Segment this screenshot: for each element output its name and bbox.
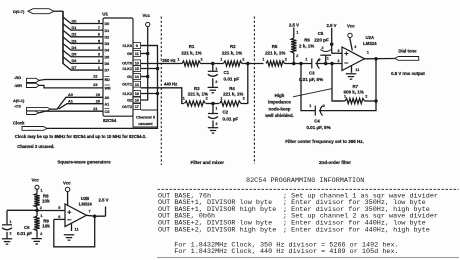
wire R4 up to node (241, 64, 248, 104)
svg-text:20: 20 (96, 99, 100, 103)
resistor R3 (183, 86, 209, 106)
power 2.5V at C5 (327, 23, 337, 28)
IC U1 RD pin name (105, 77, 111, 83)
IC U1 A0 pin name (105, 96, 110, 100)
svg-text:10k: 10k (42, 199, 50, 204)
wire U2B feedback (54, 216, 95, 247)
junction pin2 node (330, 62, 334, 66)
svg-text:1: 1 (216, 107, 218, 111)
svg-text:For 1.8432MHz Clock, 440 Hz di: For 1.8432MHz Clock, 440 Hz divisor = 41… (174, 248, 398, 256)
IC U1 82C54 body (102, 12, 133, 123)
svg-text:0.01 µF: 0.01 µF (17, 231, 32, 236)
svg-text:Channel 3: Channel 3 (136, 114, 156, 119)
IC U1 A1 pin name (105, 102, 110, 106)
wire D2 bus tap (63, 30, 103, 37)
svg-text:unused: unused (138, 121, 153, 126)
wire D0 bus tap (63, 17, 103, 24)
junction node A R6 (292, 62, 296, 66)
wire R1 to R2 (201, 63, 224, 65)
svg-text:WR: WR (105, 87, 111, 91)
resistor R1 (177, 44, 203, 66)
svg-text:R5: R5 (272, 44, 278, 49)
node Clock tag (13, 121, 47, 131)
ground at U2A (346, 74, 356, 79)
svg-text:D2: D2 (72, 33, 77, 37)
resistor R7 (332, 84, 368, 103)
svg-text:A1: A1 (105, 102, 110, 106)
ground under C1 (208, 87, 218, 92)
label pin2 (338, 59, 340, 63)
svg-text:1: 1 (98, 66, 100, 70)
svg-text:OUT0: OUT0 (122, 61, 132, 65)
svg-text:2 k, 1%: 2 k, 1% (299, 43, 314, 48)
wire CLK0 stub (141, 45, 158, 47)
power Vcc at U2A (347, 24, 357, 51)
svg-text:R2: R2 (230, 44, 236, 49)
svg-text:U1: U1 (102, 12, 108, 17)
svg-text:impedance: impedance (268, 100, 291, 105)
svg-text:0.8 V rms output: 0.8 V rms output (391, 71, 425, 76)
wire G0 to Vcc (141, 53, 148, 55)
resistor R2 (220, 44, 245, 66)
wire -CS to pin 21 (39, 107, 103, 113)
label 2nd-order filter (319, 160, 351, 165)
IC U1 data pin names (105, 22, 111, 73)
power Vcc at U2B (63, 181, 71, 206)
svg-text:2: 2 (322, 46, 324, 50)
svg-text:2: 2 (40, 232, 42, 236)
svg-text:13: 13 (135, 83, 139, 87)
svg-text:-RD: -RD (14, 75, 21, 80)
svg-text:D5: D5 (72, 53, 77, 57)
svg-text:2: 2 (10, 232, 12, 236)
svg-text:221 k, 1%: 221 k, 1% (265, 50, 285, 55)
svg-text:16: 16 (135, 99, 139, 103)
svg-text:R6: R6 (304, 38, 310, 43)
svg-text:R3: R3 (194, 86, 200, 91)
svg-text:11: 11 (135, 52, 139, 56)
svg-text:220 pF: 220 pF (314, 38, 329, 43)
svg-text:OUT BASE+2, DIVISOR high byte: OUT BASE+2, DIVISOR high byte (158, 226, 276, 234)
svg-text:8: 8 (98, 19, 100, 23)
svg-text:R1: R1 (189, 44, 195, 49)
node D(0-7) bus tag (13, 9, 63, 14)
svg-text:U2A: U2A (365, 35, 374, 40)
junction clock-CLK1 (156, 67, 160, 71)
svg-text:R4: R4 (229, 86, 235, 91)
capacitor C4 (306, 103, 330, 130)
svg-text:OUT1: OUT1 (122, 83, 132, 87)
svg-text:0.01 µF: 0.01 µF (224, 77, 240, 82)
wire clock line (47, 46, 158, 129)
svg-text:7: 7 (98, 26, 100, 30)
svg-text:C5: C5 (318, 31, 324, 36)
svg-text:CLK2: CLK2 (122, 92, 132, 96)
ground under C2 (208, 128, 218, 133)
wire pin3 input (332, 49, 342, 54)
junction clock-CLK2 (156, 92, 160, 96)
resistor R6 (291, 28, 314, 64)
svg-text:1: 1 (215, 67, 217, 71)
divider dashed 1 (160, 17, 162, 166)
junction Vcc-G0 (146, 52, 150, 56)
svg-text:Vcc: Vcc (347, 24, 355, 29)
svg-text:D0: D0 (105, 22, 110, 26)
svg-text:82C54 PROGRAMMING INFORMATION: 82C54 PROGRAMMING INFORMATION (246, 177, 364, 185)
svg-text:D1: D1 (72, 26, 77, 30)
junction C1 tap (211, 62, 215, 66)
svg-text:Channel 3 unused.: Channel 3 unused. (17, 144, 54, 149)
resistor R8 (34, 187, 50, 210)
svg-text:21: 21 (93, 107, 97, 111)
svg-text:Vcc: Vcc (32, 177, 40, 182)
label 440 Hz (164, 81, 177, 86)
wire D4 bus tap (63, 44, 103, 51)
note filter center frequency (285, 139, 364, 144)
wire pin2 to R7 (332, 64, 343, 102)
junction mixer node (246, 62, 250, 66)
op-amp U2B (65, 196, 92, 227)
junction C2 tap (211, 102, 215, 106)
power Vcc at R8 (32, 177, 40, 189)
svg-text:1: 1 (327, 57, 329, 61)
svg-text:Vcc: Vcc (63, 181, 71, 186)
svg-text:10: 10 (135, 61, 139, 65)
svg-text:Vcc: Vcc (143, 13, 151, 18)
svg-text:D3: D3 (72, 39, 77, 43)
capacitor C2 (208, 104, 238, 128)
svg-text:A1: A1 (68, 99, 73, 103)
svg-text:15: 15 (135, 67, 139, 71)
svg-text:11: 11 (356, 68, 360, 72)
resistor R4 (220, 86, 246, 106)
svg-text:R7: R7 (352, 84, 358, 89)
svg-text:LM324: LM324 (79, 201, 93, 206)
wire D7 bus tap (63, 64, 103, 71)
svg-text:221 k, 1%: 221 k, 1% (223, 92, 243, 97)
svg-text:D6: D6 (72, 59, 77, 63)
note clock speed (15, 134, 146, 139)
svg-text:2: 2 (338, 59, 340, 63)
wire D6 bus tap (63, 57, 103, 64)
svg-text:1: 1 (296, 31, 298, 35)
IC U1 WR pin name (105, 85, 111, 91)
note channel 3 unused (17, 144, 54, 149)
wire output down to C4 (319, 59, 376, 111)
op-amp U2A (342, 35, 377, 71)
svg-text:CLK1: CLK1 (122, 67, 132, 71)
wire C4 to node A (301, 64, 315, 111)
svg-text:2: 2 (296, 54, 298, 58)
svg-text:node-keep: node-keep (269, 106, 291, 111)
wire pin11 ground stub (352, 65, 360, 73)
wire R2 to node (242, 63, 264, 65)
wire D3 bus tap (63, 37, 103, 44)
node -RD tag (14, 75, 39, 82)
wire U2A output (365, 50, 395, 59)
svg-text:3: 3 (338, 49, 340, 53)
svg-text:19: 19 (96, 93, 100, 97)
wire OUT0 to R1 (141, 63, 182, 65)
wire data bus vertical (62, 11, 64, 64)
wire D1 bus tap (63, 24, 103, 31)
svg-text:CLK0: CLK0 (122, 44, 132, 48)
svg-text:High: High (275, 93, 285, 98)
svg-text:350 Hz: 350 Hz (162, 58, 175, 63)
svg-text:G1: G1 (127, 75, 132, 79)
svg-text:0.01 µF, 5%: 0.01 µF, 5% (299, 77, 323, 82)
svg-text:221 k, 1%: 221 k, 1% (222, 51, 242, 56)
svg-text:C6: C6 (24, 225, 30, 230)
node A(0-1) tag (13, 98, 51, 111)
label square-wave generators (57, 159, 111, 164)
IC U1 CS pin name (105, 108, 111, 114)
svg-text:D5: D5 (105, 55, 110, 59)
wire CLK1 stub (141, 68, 158, 70)
wire OUT1 to R3 (141, 88, 184, 104)
svg-text:CS: CS (105, 110, 111, 114)
IC U1 right pin boxes (122, 43, 140, 110)
label filter and mixer (191, 160, 225, 165)
svg-text:D3: D3 (105, 42, 110, 46)
junction R8 R9 node (35, 209, 39, 213)
resistor R5 (262, 44, 288, 66)
svg-text:D6: D6 (105, 62, 110, 66)
svg-text:909 k, 1%: 909 k, 1% (343, 90, 363, 95)
ground under R9 (32, 239, 42, 244)
svg-text:221 k, 1%: 221 k, 1% (181, 51, 201, 56)
junction output node (374, 57, 378, 61)
svg-text:C3: C3 (309, 71, 315, 76)
wire R7 to output (365, 100, 377, 102)
svg-text:2.5 V: 2.5 V (99, 197, 109, 202)
ground under C6 (2, 239, 12, 244)
svg-text:Filter and mixer: Filter and mixer (191, 160, 225, 165)
wire pin6 input (54, 218, 65, 220)
power 2.5V at R6 (289, 23, 299, 28)
wire Vcc rail (141, 27, 148, 100)
label pin5 (58, 205, 61, 210)
node -CS tag (14, 104, 39, 115)
svg-text:5: 5 (98, 39, 100, 43)
capacitor C5 (314, 28, 333, 64)
svg-text:9: 9 (136, 44, 138, 48)
svg-text:2: 2 (98, 59, 100, 63)
wire node to pin5 (37, 210, 65, 212)
svg-text:2: 2 (215, 80, 217, 84)
junction C5 tap (324, 62, 328, 66)
note high impedance (264, 89, 331, 118)
wire R5 to node A (285, 63, 343, 65)
label pin6 (58, 214, 61, 219)
svg-text:17: 17 (135, 105, 139, 109)
svg-text:D7: D7 (72, 66, 77, 70)
wire G1 to Vcc (141, 76, 148, 78)
svg-text:D1: D1 (105, 29, 110, 33)
svg-text:0.01 µF, 5%: 0.01 µF, 5% (306, 125, 330, 130)
junction U2B output (93, 215, 97, 219)
node -WR tag (14, 83, 39, 88)
svg-text:G2: G2 (127, 99, 132, 103)
svg-text:18: 18 (135, 92, 139, 96)
svg-text:A0: A0 (68, 93, 73, 97)
svg-text:2.5 V: 2.5 V (289, 23, 299, 28)
svg-text:LM324: LM324 (363, 41, 377, 46)
svg-text:RD: RD (105, 78, 111, 82)
svg-text:; Enter divisor for 440Hz, hig: ; Enter divisor for 440Hz, high byte (283, 226, 430, 234)
wire pin11 U2B stub (72, 223, 80, 231)
IC U1 channel3 box (133, 110, 158, 127)
svg-text:0.01 µF: 0.01 µF (223, 116, 239, 121)
note table divisor rows (174, 241, 398, 256)
divider dashed 2 (253, 17, 255, 165)
svg-text:D0: D0 (72, 19, 77, 23)
svg-text:C1: C1 (224, 70, 230, 75)
wire A0 (51, 93, 104, 109)
svg-text:C4: C4 (314, 119, 320, 124)
svg-text:Dial tone: Dial tone (398, 48, 417, 53)
svg-text:23: 23 (93, 83, 97, 87)
svg-text:D7: D7 (105, 69, 110, 73)
svg-text:2nd-order filter: 2nd-order filter (319, 160, 351, 165)
node dial tone tag (391, 48, 425, 76)
svg-text:2: 2 (216, 122, 218, 126)
wire -RD to pin 22 (39, 75, 103, 81)
label table header (246, 177, 364, 185)
divider table header underline (158, 188, 459, 190)
note table OUT rows (158, 192, 438, 234)
wire 2.5V output stub (99, 197, 109, 216)
svg-text:U2B: U2B (81, 196, 89, 201)
wire U2B output (87, 209, 106, 217)
svg-text:A(0-1): A(0-1) (13, 98, 25, 103)
wire R3 to R4 (206, 103, 219, 105)
svg-text:440 Hz: 440 Hz (164, 81, 177, 86)
svg-text:G0: G0 (127, 52, 132, 56)
capacitor C3 (299, 56, 323, 82)
resistor R9 (34, 210, 50, 237)
svg-text:Clock: Clock (13, 121, 25, 126)
svg-text:7: 7 (89, 209, 91, 214)
svg-text:OUT2: OUT2 (122, 105, 132, 109)
svg-text:82C54: 82C54 (103, 118, 117, 123)
svg-text:2.5 V: 2.5 V (327, 23, 337, 28)
svg-text:Square-wave generators: Square-wave generators (57, 159, 111, 164)
ground at U2B (64, 235, 74, 240)
junction Vcc-G1 (146, 75, 150, 79)
power Vcc at U1 (143, 13, 151, 27)
wire CLK2 stub (141, 93, 158, 95)
svg-text:1: 1 (10, 220, 12, 224)
svg-text:3: 3 (98, 53, 100, 57)
svg-text:A0: A0 (105, 96, 110, 100)
svg-text:-CS: -CS (14, 104, 21, 109)
svg-text:C2: C2 (223, 110, 229, 115)
svg-text:10k: 10k (42, 224, 50, 229)
svg-text:D2: D2 (105, 35, 110, 39)
capacitor C6 (2, 210, 37, 239)
svg-text:-WR: -WR (14, 83, 22, 88)
note table bottom border (157, 257, 459, 259)
wire D5 bus tap (63, 50, 103, 57)
svg-text:6: 6 (98, 33, 100, 37)
capacitor C1 (208, 64, 240, 88)
wire -WR to pin 23 (39, 83, 103, 88)
svg-text:Filter center frequency set to: Filter center frequency set to 395 Hz. (285, 139, 364, 144)
svg-text:Clock may be up to 8MHz for 82: Clock may be up to 8MHz for 82C54 and up… (15, 134, 146, 139)
junction node A C4 (299, 62, 303, 66)
svg-text:22: 22 (93, 75, 97, 79)
svg-text:well shielded.: well shielded. (264, 113, 294, 118)
junction R7 output (374, 99, 378, 103)
svg-text:D(0-7): D(0-7) (13, 9, 25, 14)
label 350 Hz (162, 58, 175, 63)
wire A1 (59, 99, 104, 109)
